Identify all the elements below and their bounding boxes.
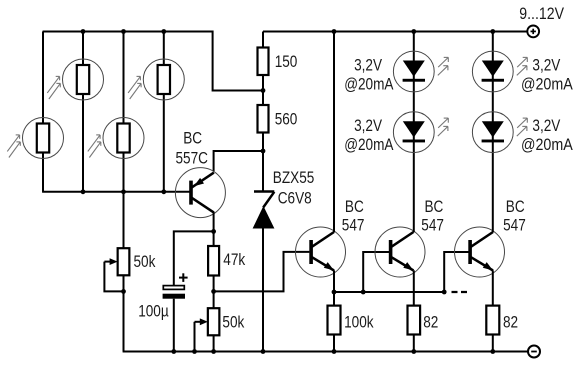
svg-text:547: 547 xyxy=(342,216,365,235)
LED D1 xyxy=(393,51,448,92)
svg-text:3,2V: 3,2V xyxy=(532,117,561,136)
svg-text:560: 560 xyxy=(275,110,298,129)
wire 150-560 xyxy=(262,75,264,105)
wire 560 bottom xyxy=(262,133,264,152)
wire to 100k xyxy=(333,292,335,306)
junction node 150/560 xyxy=(261,88,266,93)
wire to capacitor xyxy=(174,231,214,285)
svg-text:3,2V: 3,2V xyxy=(532,56,561,75)
svg-text:BC: BC xyxy=(345,197,364,216)
wire LDR column 4 xyxy=(163,32,165,192)
wire P2 wiper to ground rail xyxy=(194,322,196,352)
wire P1 wiper to bottom lead xyxy=(104,262,123,292)
wire 560 to BC557 emitter xyxy=(214,151,263,171)
LED D4 xyxy=(472,112,527,153)
junction P1 wiper xyxy=(121,289,126,294)
ground rail xyxy=(123,351,528,353)
wire LDR column 1 xyxy=(42,32,44,192)
resistor 82 (1) xyxy=(408,306,421,335)
wire zener cathode xyxy=(262,151,264,192)
junction ground/pot2 xyxy=(211,349,216,354)
LDR 4 xyxy=(88,118,144,159)
wire LED string 1 / Q2 collector xyxy=(413,32,415,233)
LDR bottom rail to BC557 base xyxy=(42,191,190,193)
svg-text:82: 82 xyxy=(503,313,518,332)
junction node 560/zener/emitter xyxy=(261,149,266,154)
wire Q2 emitter to 82 xyxy=(413,270,415,305)
svg-text:BC: BC xyxy=(506,197,525,216)
wire 47k to pot xyxy=(213,276,215,309)
junction 47k/pot2/base feed xyxy=(211,289,216,294)
svg-text:@20mA: @20mA xyxy=(344,136,394,155)
junction top rail x123 xyxy=(121,29,126,34)
svg-text:9...12V: 9...12V xyxy=(519,5,564,23)
capacitor C1 100u electrolytic xyxy=(163,273,188,298)
junction BC557 collector node xyxy=(211,229,216,234)
wire 100k to ground xyxy=(333,335,335,352)
junction base rail x123 xyxy=(121,189,126,194)
resistor 100k xyxy=(328,306,341,335)
junction base rail x83 xyxy=(81,189,86,194)
wire zener anode to ground rail xyxy=(262,228,264,352)
wire to R 150 xyxy=(262,32,264,48)
wire LDR column 2 xyxy=(82,32,84,192)
top supply rail left section xyxy=(43,32,263,91)
svg-text:@20mA: @20mA xyxy=(521,75,573,93)
junction emitter rail / Q2 base xyxy=(361,290,366,295)
transistor BC547 Q2 xyxy=(375,227,425,277)
LDR 1 xyxy=(47,59,103,100)
pot P2 wiper arrow xyxy=(195,321,201,323)
minus terminal xyxy=(528,346,540,358)
junction ground/P2 wiper xyxy=(192,349,197,354)
junction top rail x83 xyxy=(81,29,86,34)
plus terminal xyxy=(527,26,539,38)
junction ground/82 (2) xyxy=(490,349,495,354)
resistor 560 xyxy=(258,105,269,133)
transistor BC557C U1 xyxy=(175,168,225,218)
junction Q1 emitter/100k xyxy=(332,290,337,295)
svg-text:100µ: 100µ xyxy=(138,302,169,321)
resistor 150 xyxy=(258,48,269,76)
emitter rail xyxy=(334,291,444,293)
potentiometer 50k P1 xyxy=(118,248,130,275)
pot P1 wiper arrow xyxy=(104,261,110,263)
svg-text:@20mA: @20mA xyxy=(521,136,573,154)
wire Q3 base xyxy=(444,252,470,292)
junction ground/cap xyxy=(171,349,176,354)
LDR 2 xyxy=(128,59,184,100)
svg-text:3,2V: 3,2V xyxy=(354,56,383,75)
wire 82 to ground xyxy=(413,335,415,352)
svg-text:150: 150 xyxy=(275,53,298,72)
wire Q1 collector to top rail xyxy=(333,32,335,233)
svg-text:50k: 50k xyxy=(222,313,244,332)
wire LED string 2 / Q3 collector xyxy=(492,32,494,233)
junction ground/100k xyxy=(332,349,337,354)
potentiometer 50k P2 xyxy=(208,308,220,335)
svg-text:3,2V: 3,2V xyxy=(354,117,383,136)
svg-text:50k: 50k xyxy=(134,253,156,272)
junction top rail LED string 1 xyxy=(411,29,416,34)
junction top rail x163 xyxy=(161,29,166,34)
dashed continuation xyxy=(452,291,469,293)
wire LDR column 3 xyxy=(123,32,125,192)
wire pot2 to ground rail xyxy=(213,335,215,351)
junction ground/82 (1) xyxy=(411,349,416,354)
junction emitter rail / Q3 base xyxy=(442,290,447,295)
junction base rail x163 xyxy=(161,189,166,194)
resistor 47k xyxy=(208,246,219,276)
svg-text:100k: 100k xyxy=(344,313,374,332)
wire Q2 base xyxy=(363,252,390,292)
svg-text:BC: BC xyxy=(425,197,444,216)
svg-text:C6V8: C6V8 xyxy=(278,189,312,208)
svg-text:557C: 557C xyxy=(176,149,208,168)
junction top rail Q1 collector xyxy=(332,29,337,34)
LED D2 xyxy=(393,112,448,153)
top supply rail right section xyxy=(263,31,528,33)
junction ground/zener xyxy=(261,349,266,354)
wire capacitor to ground rail xyxy=(173,299,175,352)
svg-text:547: 547 xyxy=(421,216,444,235)
wire Q1 emitter down xyxy=(333,270,335,292)
svg-text:547: 547 xyxy=(503,216,526,235)
transistor BC547 Q1 xyxy=(296,227,346,277)
wire base rail to pot1 xyxy=(123,192,125,248)
svg-text:47k: 47k xyxy=(223,251,245,270)
wire 47k node to Q1 base xyxy=(214,252,310,292)
wire 82 to ground xyxy=(492,335,494,352)
LED D3 xyxy=(472,51,527,92)
wire pot1 to ground rail xyxy=(123,275,125,351)
svg-text:BZX55: BZX55 xyxy=(273,169,315,188)
resistor 82 (2) xyxy=(486,306,499,335)
transistor BC547 Q3 xyxy=(455,227,505,277)
junction top rail LED string 2 xyxy=(490,29,495,34)
svg-text:82: 82 xyxy=(423,313,438,332)
zener diode BZX55 C6V8 xyxy=(253,192,275,229)
LDR 3 xyxy=(7,118,63,159)
wire BC557 collector xyxy=(213,212,215,246)
wire Q3 emitter to 82 xyxy=(492,270,494,305)
svg-text:BC: BC xyxy=(183,129,202,148)
svg-text:@20mA: @20mA xyxy=(344,75,394,94)
